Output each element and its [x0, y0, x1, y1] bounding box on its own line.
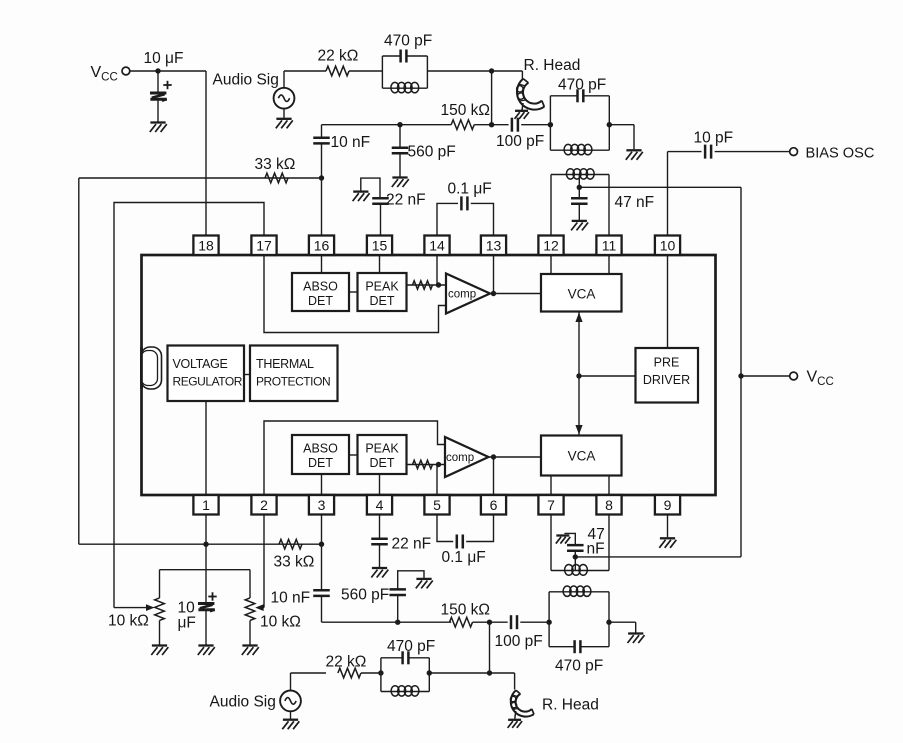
- svg-text:PEAK: PEAK: [365, 442, 399, 456]
- svg-text:22 nF: 22 nF: [392, 536, 432, 553]
- svg-text:Audio Sig: Audio Sig: [210, 694, 276, 711]
- svg-text:470 pF: 470 pF: [555, 658, 603, 675]
- svg-text:μF: μF: [178, 615, 196, 632]
- svg-text:9: 9: [664, 497, 672, 513]
- svg-text:2: 2: [260, 497, 268, 513]
- svg-text:12: 12: [543, 238, 559, 254]
- svg-text:1: 1: [202, 497, 210, 513]
- svg-text:14: 14: [429, 238, 445, 254]
- svg-text:150 kΩ: 150 kΩ: [441, 102, 491, 119]
- svg-text:comp: comp: [446, 452, 474, 464]
- svg-text:10 kΩ: 10 kΩ: [108, 613, 149, 630]
- svg-text:DET: DET: [308, 294, 333, 308]
- svg-text:17: 17: [256, 238, 272, 254]
- svg-text:8: 8: [605, 497, 613, 513]
- svg-text:R. Head: R. Head: [524, 57, 581, 74]
- svg-text:comp: comp: [448, 289, 476, 301]
- svg-text:10 pF: 10 pF: [694, 130, 734, 147]
- svg-text:R. Head: R. Head: [542, 697, 599, 714]
- svg-text:560 pF: 560 pF: [341, 587, 389, 604]
- svg-text:10 kΩ: 10 kΩ: [260, 614, 301, 631]
- svg-text:100 pF: 100 pF: [495, 633, 543, 650]
- svg-text:470 pF: 470 pF: [387, 638, 435, 655]
- svg-text:11: 11: [602, 238, 617, 254]
- svg-text:THERMAL: THERMAL: [256, 357, 314, 371]
- svg-text:PROTECTION: PROTECTION: [256, 375, 330, 389]
- svg-text:5: 5: [433, 497, 441, 513]
- svg-text:150 kΩ: 150 kΩ: [441, 602, 491, 619]
- svg-text:100 pF: 100 pF: [496, 133, 544, 150]
- svg-text:ABSO: ABSO: [303, 442, 338, 456]
- svg-text:7: 7: [547, 497, 555, 513]
- svg-text:Audio Sig: Audio Sig: [213, 72, 279, 89]
- svg-text:DET: DET: [370, 294, 395, 308]
- svg-text:10: 10: [660, 238, 676, 254]
- svg-text:47 nF: 47 nF: [615, 194, 655, 211]
- svg-text:33 kΩ: 33 kΩ: [274, 554, 315, 571]
- svg-text:DRIVER: DRIVER: [643, 373, 690, 387]
- svg-text:nF: nF: [587, 541, 605, 558]
- svg-text:22 kΩ: 22 kΩ: [326, 654, 367, 671]
- svg-text:VCA: VCA: [568, 287, 596, 302]
- svg-text:470 pF: 470 pF: [558, 77, 606, 94]
- svg-text:22 nF: 22 nF: [386, 192, 426, 209]
- svg-text:0.1 μF: 0.1 μF: [448, 181, 492, 198]
- svg-text:470 pF: 470 pF: [384, 33, 432, 50]
- svg-text:10 nF: 10 nF: [271, 590, 311, 607]
- svg-text:3: 3: [318, 497, 326, 513]
- svg-text:4: 4: [376, 497, 384, 513]
- svg-text:10 nF: 10 nF: [331, 134, 371, 151]
- svg-text:DET: DET: [370, 456, 395, 470]
- svg-text:33 kΩ: 33 kΩ: [255, 156, 296, 173]
- svg-text:VOLTAGE: VOLTAGE: [173, 357, 228, 371]
- svg-text:REGULATOR: REGULATOR: [173, 375, 243, 389]
- svg-text:16: 16: [314, 238, 330, 254]
- svg-text:PRE: PRE: [654, 356, 680, 370]
- svg-text:6: 6: [490, 497, 498, 513]
- svg-text:15: 15: [372, 238, 388, 254]
- svg-text:560 pF: 560 pF: [408, 144, 456, 161]
- svg-text:10 μF: 10 μF: [144, 50, 184, 67]
- svg-text:18: 18: [198, 238, 214, 254]
- svg-text:PEAK: PEAK: [365, 280, 399, 294]
- svg-text:13: 13: [486, 238, 502, 254]
- svg-text:BIAS OSC: BIAS OSC: [806, 146, 875, 162]
- svg-text:ABSO: ABSO: [303, 280, 338, 294]
- svg-text:22 kΩ: 22 kΩ: [318, 48, 359, 65]
- svg-text:VCA: VCA: [568, 449, 596, 464]
- svg-text:DET: DET: [308, 456, 333, 470]
- svg-text:0.1 μF: 0.1 μF: [442, 549, 486, 566]
